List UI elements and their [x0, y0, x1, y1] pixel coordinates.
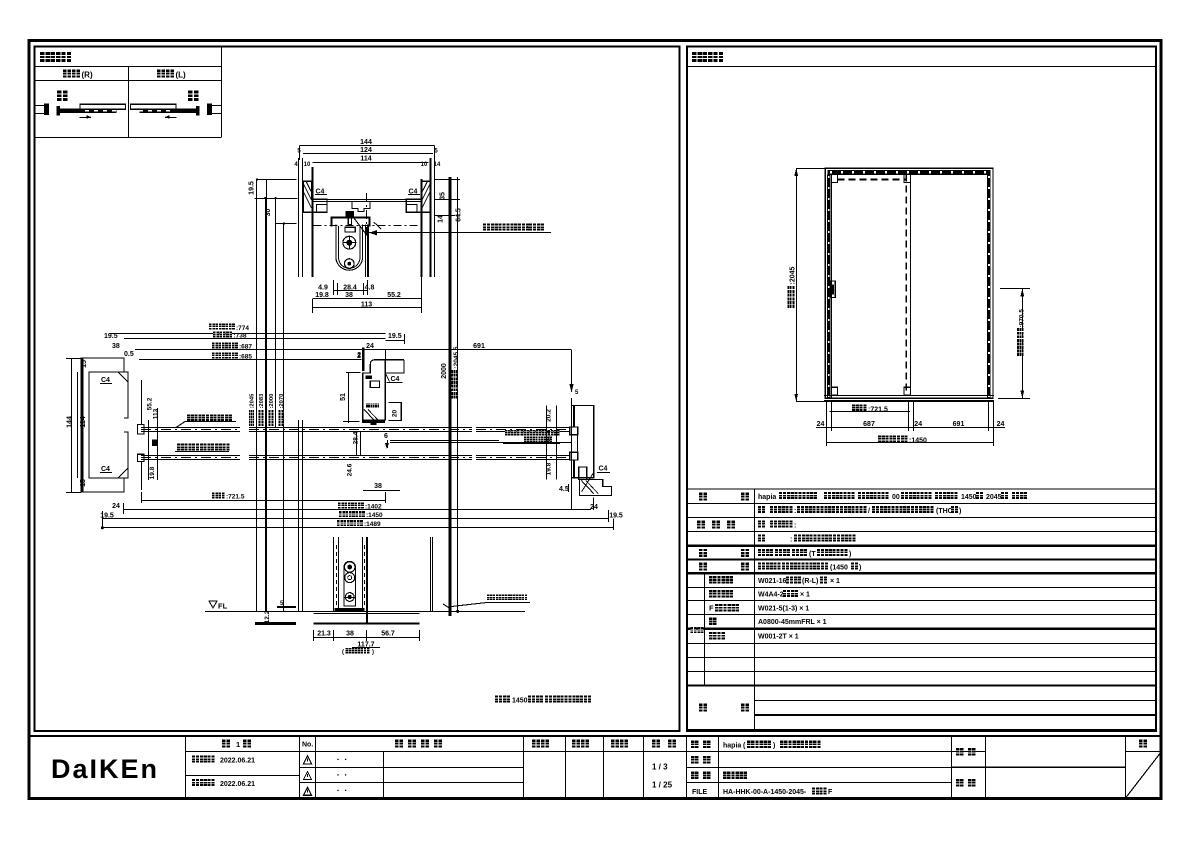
kakunin header: [572, 740, 580, 748]
svg-text:4.8: 4.8: [365, 285, 375, 292]
soffit dashed line: [314, 225, 421, 227]
jamb foot bottom right: [580, 480, 612, 496]
svg-text:24: 24: [112, 503, 120, 510]
strip bottom edge lines: [141, 455, 240, 457]
label zumei: [691, 772, 699, 780]
svg-text:114: 114: [80, 416, 87, 427]
svg-text:38: 38: [346, 631, 354, 638]
svg-text:19.5: 19.5: [609, 513, 623, 520]
label kanamono: [699, 563, 707, 571]
right jamb pocket blocks: [570, 427, 578, 435]
svg-text:(: (: [342, 650, 344, 656]
svg-text:5: 5: [575, 390, 579, 396]
svg-text:1 / 25: 1 / 25: [652, 781, 673, 790]
flat rail note: [487, 595, 492, 600]
svg-text:): ): [859, 565, 861, 572]
value kamachi: [758, 520, 765, 527]
svg-text:144: 144: [67, 416, 74, 428]
hanger bolt: [346, 211, 355, 217]
door bottom edges: [333, 537, 335, 612]
svg-text::1450: :1450: [909, 438, 927, 445]
svg-text:20: 20: [391, 410, 398, 418]
bottom wall verticals left: [298, 420, 300, 612]
svg-text:124: 124: [360, 147, 372, 154]
floor guide body: [344, 561, 355, 606]
rev rows: [185, 775, 300, 777]
vertical dim text 2083: [258, 393, 265, 426]
svg-text:28.4: 28.4: [343, 285, 357, 292]
svg-text:No.: No.: [302, 742, 313, 749]
svg-text:5: 5: [297, 149, 301, 155]
center post profile outline: [363, 360, 404, 420]
svg-text:12.2: 12.2: [264, 610, 271, 623]
top detail bottom dim 113: [313, 307, 421, 309]
svg-text:(T: (T: [809, 551, 816, 558]
svg-text:4.5: 4.5: [559, 486, 569, 493]
cell1 arrow: [80, 117, 92, 119]
svg-text:(R): (R): [82, 71, 93, 80]
svg-text:): ): [959, 508, 961, 515]
svg-text:× 1: × 1: [830, 578, 840, 585]
svg-text:W021-16: W021-16: [758, 578, 787, 585]
bottom frame line: [824, 395, 994, 397]
svg-text::2070: :2070: [279, 394, 285, 409]
svg-text:W021-5(1-3) × 1: W021-5(1-3) × 1: [758, 605, 809, 612]
svg-text:691: 691: [953, 421, 965, 428]
wall lines right: [430, 158, 432, 277]
name rows lines: [686, 767, 952, 769]
spec table frame: [687, 489, 1156, 730]
svg-text:51: 51: [340, 393, 347, 401]
svg-text:2022.06.21: 2022.06.21: [220, 757, 255, 764]
rail note text tsurisha rail: [483, 224, 490, 231]
svg-text:19.8: 19.8: [149, 466, 156, 479]
header migibiki R: [63, 70, 71, 78]
section view title box: [35, 66, 222, 68]
svg-text:2000: 2000: [441, 363, 448, 379]
header hidaribiki L: [157, 70, 165, 78]
svg-text:・ ・: ・ ・: [335, 774, 349, 780]
post inner square: [370, 381, 379, 387]
dim 114: [313, 162, 429, 164]
svg-text::2045.5: :2045.5: [453, 346, 460, 368]
spec table label divider: [754, 489, 756, 730]
web center bracket: [352, 201, 370, 212]
svg-text:38: 38: [374, 483, 382, 490]
value panel: [758, 506, 765, 513]
svg-text:144: 144: [360, 139, 372, 146]
vertical dim text 2045: [249, 393, 256, 426]
jamb stop top: [124, 372, 128, 418]
title block frame: [29, 735, 1162, 737]
svg-text:× 1: × 1: [800, 592, 810, 599]
bottom dim tohaba 721.5: [829, 411, 910, 413]
dim 685 line: [139, 359, 362, 361]
cell2 hikite label: [188, 91, 199, 102]
svg-text:2045: 2045: [986, 494, 1002, 501]
svg-text::1402: :1402: [365, 504, 382, 511]
floor rail bar: [335, 608, 365, 612]
svg-text:HA-HHK-00-A-1450-2045-: HA-HHK-00-A-1450-2045-: [723, 789, 807, 796]
svg-text:5: 5: [434, 149, 438, 155]
frame face lines: [312, 167, 314, 277]
svg-text::685: :685: [239, 354, 252, 361]
right handle height dim 970.5: [1022, 289, 1024, 399]
right drawing box border: [687, 47, 1156, 732]
svg-text::687: :687: [239, 344, 252, 351]
long right vertical pair: [449, 177, 452, 616]
svg-text:19.5: 19.5: [104, 333, 118, 340]
svg-text:/: /: [868, 508, 870, 515]
svg-text:38: 38: [345, 292, 353, 299]
svg-text:20.2: 20.2: [546, 409, 553, 422]
svg-text:F: F: [828, 789, 833, 796]
svg-text::2083: :2083: [259, 393, 265, 409]
leader note A (section note): [187, 414, 194, 421]
shonin header: [532, 740, 540, 748]
label hinban vertical: [691, 627, 697, 633]
bottom wall verticals right: [430, 537, 432, 612]
top rail dark band: [828, 170, 991, 175]
cell1 door panel bar: [57, 106, 61, 116]
baseboard thick segment: [255, 622, 296, 625]
value waku: [758, 535, 765, 542]
svg-text::: :: [790, 537, 792, 544]
svg-text:19.5: 19.5: [249, 181, 256, 195]
svg-text:): ): [849, 551, 851, 558]
svg-text:113: 113: [361, 301, 372, 308]
sakusei header: [611, 740, 619, 748]
door handle: [831, 281, 835, 298]
svg-text:10: 10: [421, 162, 428, 168]
svg-text::2045: :2045: [250, 393, 256, 409]
dim tohaba 721.5: [141, 500, 385, 502]
bottom dim 24 687 24 691 24: [816, 427, 1005, 429]
svg-text:0.5: 0.5: [124, 351, 134, 358]
door frame outer: [825, 168, 993, 398]
title danmenzu: [40, 52, 50, 62]
svg-text:hapia: hapia: [758, 494, 776, 501]
svg-text:): ): [773, 743, 775, 750]
vertical text door height: [451, 346, 460, 398]
svg-text:1 / 3: 1 / 3: [652, 763, 668, 772]
head frame left block: [303, 181, 327, 212]
dim 38 below strip: [363, 490, 400, 492]
page diagonal: [1125, 752, 1162, 799]
top detail right dims: [450, 179, 452, 233]
sub labels: [709, 576, 717, 584]
cell2 wall line right: [212, 105, 222, 107]
svg-text:15: 15: [81, 360, 88, 368]
svg-text:(1450: (1450: [830, 565, 848, 572]
svg-text::721.5: :721.5: [868, 406, 888, 413]
svg-text:2022.06.21: 2022.06.21: [220, 781, 255, 788]
kaiteibi row: [192, 779, 199, 786]
dim 738 line: [124, 338, 385, 340]
kaitei rireki header: [395, 740, 403, 748]
jamb foot step: [579, 467, 587, 480]
wall lines left: [298, 158, 300, 277]
rev table header row line: [185, 751, 985, 753]
dim uchinori 1450: [102, 518, 608, 520]
svg-text:24: 24: [817, 421, 825, 428]
cell2 arrow: [165, 117, 177, 119]
center post door edge thick bar: [362, 348, 365, 372]
top detail bottom dim 4.9 28.4 4.8: [334, 290, 368, 292]
value rail: [758, 563, 765, 570]
post catch box: [388, 403, 401, 421]
dim wakugai 1402: [123, 509, 591, 511]
svg-text:): ): [372, 650, 374, 656]
svg-text:FL: FL: [218, 602, 228, 611]
cell2 door panel bar: [196, 106, 200, 116]
svg-text:F: F: [709, 604, 714, 613]
svg-text:・ ・: ・ ・: [335, 758, 349, 764]
bracket seat: [345, 227, 355, 232]
svg-text:C4: C4: [101, 466, 110, 473]
svg-text:(: (: [743, 743, 746, 750]
right stile dark band: [987, 174, 990, 398]
svg-text:15: 15: [80, 479, 87, 487]
dim 774 line: [109, 333, 385, 335]
label meisho: [691, 741, 699, 749]
roller wheel 1: [343, 236, 356, 249]
bottom dim uchinorihaba 1450: [826, 442, 994, 444]
label shiage: [697, 521, 705, 529]
svg-text:24: 24: [997, 421, 1005, 428]
head frame right block: [406, 181, 430, 212]
svg-text::721.5: :721.5: [226, 494, 245, 501]
svg-text:38: 38: [112, 343, 120, 350]
bottom dims 21.3 38 56.7: [314, 637, 420, 639]
svg-text:W4A4-2: W4A4-2: [758, 592, 784, 599]
dim 687 24 691 line: [135, 349, 572, 351]
svg-text:38.4: 38.4: [546, 430, 553, 443]
label yoshiki: [699, 493, 707, 501]
cell2 pocket track: [131, 104, 177, 109]
hanger plate: [336, 225, 363, 271]
svg-text:DaIKEn: DaIKEn: [51, 754, 159, 784]
svg-text:4: 4: [294, 162, 298, 168]
svg-text:35: 35: [440, 192, 447, 200]
FL mark: [209, 601, 217, 608]
dim zentai 1489: [102, 527, 613, 529]
svg-text::2000: :2000: [269, 394, 275, 409]
front view title: [687, 66, 1156, 68]
label totte: [699, 549, 707, 557]
svg-text:2: 2: [357, 352, 361, 359]
rail leader line: [367, 232, 551, 234]
svg-text:A0800-45mmFRL × 1: A0800-45mmFRL × 1: [758, 619, 827, 626]
header dai 1 han: [222, 740, 230, 748]
hinban sub divider: [704, 573, 706, 685]
svg-text:691: 691: [473, 343, 485, 350]
svg-text:24: 24: [590, 504, 598, 511]
left stile dark band: [827, 174, 830, 398]
meeting stile dashed: [905, 174, 907, 395]
svg-text:1450: 1450: [512, 698, 528, 705]
label hinban2: [691, 756, 699, 764]
svg-text:114: 114: [360, 156, 371, 163]
svg-text:64.5: 64.5: [456, 208, 463, 222]
51 dim line: [348, 373, 350, 423]
key table header row: [35, 80, 222, 82]
door panel right end edge: [360, 432, 362, 456]
right jamb profile outline: [572, 406, 594, 478]
dim 124: [303, 153, 433, 155]
jamb pocket blocks: [137, 425, 144, 434]
svg-text::: :: [794, 522, 796, 529]
svg-text:6: 6: [384, 433, 388, 440]
cell1 hikite label: [57, 91, 68, 102]
vertical dim text 2000b: [268, 394, 275, 426]
svg-text:28.4: 28.4: [353, 431, 360, 444]
svg-text:55.2: 55.2: [387, 292, 401, 299]
head web lines: [313, 199, 422, 201]
svg-text::970.5: :970.5: [1018, 309, 1025, 328]
post top dim ticks: [385, 350, 387, 388]
svg-text:・ ・: ・ ・: [335, 789, 349, 795]
strip bottom centerline: [141, 457, 240, 459]
svg-text:56.7: 56.7: [381, 631, 395, 638]
value zumei: [723, 772, 731, 780]
strip top centerline: [141, 429, 240, 431]
svg-text:24.6: 24.6: [347, 463, 354, 476]
left drawing box border: [35, 47, 680, 732]
value hikite: [758, 549, 765, 556]
corner blocks: [831, 174, 837, 182]
svg-text:55.2: 55.2: [147, 397, 154, 410]
post dark chip: [365, 375, 372, 379]
floor line: [205, 611, 525, 613]
strip top edge lines: [141, 427, 240, 429]
svg-text:4.9: 4.9: [318, 285, 328, 292]
svg-text::738: :738: [234, 332, 247, 339]
leader arrow: [369, 230, 377, 235]
svg-text:19.8: 19.8: [546, 462, 553, 475]
left height dim 2045: [796, 168, 798, 401]
post bottom hatch: [364, 409, 374, 420]
svg-text:687: 687: [863, 421, 875, 428]
shukushaku header: [652, 740, 660, 748]
tanto label: [956, 779, 964, 787]
top detail bottom dim 19.8 38 55.2: [313, 298, 421, 300]
door panel edge thick: [367, 225, 369, 277]
svg-text:FILE: FILE: [692, 789, 707, 796]
svg-text:00: 00: [892, 494, 900, 501]
leader note C right (PAT cap): [505, 430, 511, 436]
roller wheel 2: [345, 259, 355, 269]
center line: [366, 193, 368, 235]
svg-text:113: 113: [153, 408, 160, 419]
guide screws: [344, 562, 355, 573]
hanger bracket: [332, 218, 370, 227]
svg-text::774: :774: [236, 325, 249, 332]
seiteibi row: [192, 756, 199, 763]
dim 691 right extension: [571, 350, 573, 392]
svg-text:(L): (L): [176, 71, 187, 80]
svg-text:10: 10: [304, 162, 311, 168]
svg-text::2045: :2045: [790, 266, 797, 284]
svg-text:(R-L): (R-L): [802, 578, 818, 585]
leader note B (PAT cap): [177, 444, 184, 451]
svg-text::1489: :1489: [364, 521, 381, 528]
dim 144: [300, 145, 435, 147]
label biko: [699, 704, 707, 712]
note: drawing shows 1450 right-sliding: [495, 696, 502, 703]
svg-text:W001-2T × 1: W001-2T × 1: [758, 634, 799, 641]
svg-text:1: 1: [236, 740, 240, 749]
svg-text::1450: :1450: [366, 512, 383, 519]
kenmei label: [956, 748, 964, 756]
warning triangles: [304, 756, 312, 764]
top detail left dims: [256, 180, 258, 613]
svg-text::: :: [526, 225, 528, 232]
right jamb dim extension lines: [546, 406, 548, 480]
cell1 wall line left: [35, 105, 45, 107]
svg-text:24: 24: [366, 343, 374, 350]
cell1 pocket track: [80, 104, 126, 109]
panel top dashed: [838, 178, 907, 180]
svg-text:1450: 1450: [961, 494, 977, 501]
svg-text:24: 24: [914, 421, 922, 428]
svg-text::: :: [794, 508, 796, 515]
svg-text:19.8: 19.8: [315, 292, 329, 299]
door edge pull mark: [152, 439, 158, 446]
svg-text:14: 14: [438, 215, 445, 223]
svg-text:C4: C4: [599, 466, 608, 473]
svg-text:C4: C4: [391, 376, 400, 383]
title block verticals: [185, 736, 187, 799]
vertical dim text 2070: [278, 394, 285, 426]
kenmei/tanto divider: [952, 766, 1126, 768]
svg-text:19.5: 19.5: [388, 333, 402, 340]
door frame inner lines: [831, 174, 833, 398]
svg-text:hapia: hapia: [723, 743, 741, 750]
svg-text:21.3: 21.3: [317, 631, 331, 638]
step lines: [314, 613, 420, 615]
left jamb profile: [81, 358, 124, 492]
svg-text:C4: C4: [101, 377, 110, 384]
post bottom bar: [362, 420, 385, 423]
